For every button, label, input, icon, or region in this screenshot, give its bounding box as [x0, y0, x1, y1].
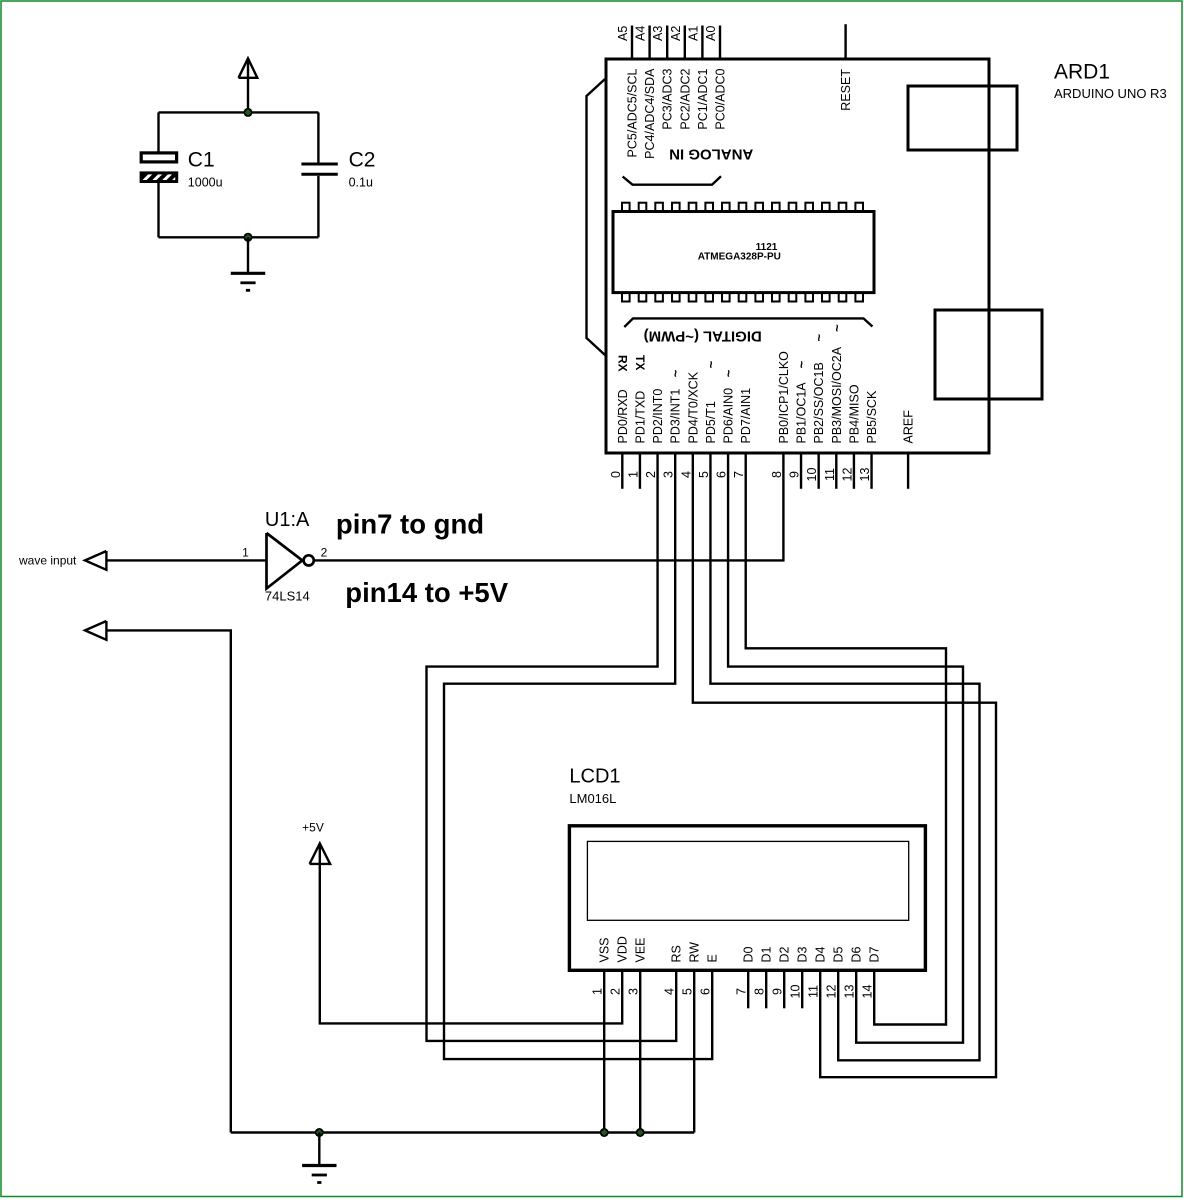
output arrow — [85, 621, 106, 640]
svg-text:2: 2 — [321, 546, 328, 560]
pin A2 stub — [684, 26, 686, 60]
svg-text:C1: C1 — [188, 149, 215, 172]
arduino ARD1 body — [606, 59, 989, 453]
svg-text:4: 4 — [679, 471, 693, 478]
svg-text:PC3/ADC3: PC3/ADC3 — [661, 68, 675, 129]
svg-text:PB5/SCK: PB5/SCK — [865, 390, 879, 443]
svg-text:D3: D3 — [796, 946, 810, 962]
lcd pin D3 stub — [801, 970, 803, 1008]
node junction — [244, 233, 253, 242]
ground — [318, 1133, 320, 1165]
power jack — [935, 310, 1042, 399]
wire — [159, 111, 319, 113]
svg-text:PD3/INT1: PD3/INT1 — [669, 389, 683, 444]
pin A4 stub — [648, 26, 650, 60]
svg-text:RESET: RESET — [839, 69, 853, 111]
wire LCD VEE to ground — [639, 970, 641, 1132]
svg-text:A0: A0 — [704, 26, 718, 41]
svg-text:PB2/SS/OC1B: PB2/SS/OC1B — [812, 362, 826, 443]
lcd display window — [587, 841, 908, 920]
wire +5V to LCD VDD — [320, 864, 622, 1024]
svg-text:VDD: VDD — [616, 936, 630, 962]
ground rail wire — [231, 1131, 694, 1133]
wire — [159, 236, 319, 238]
svg-text:14: 14 — [861, 985, 875, 999]
svg-text:pin14 to +5V: pin14 to +5V — [345, 577, 508, 608]
pin 12 stub — [853, 453, 855, 489]
wire inverter output to pin 8 — [314, 453, 783, 560]
ground — [247, 237, 249, 272]
svg-text:1: 1 — [591, 988, 605, 995]
wire arrow to ground rail — [106, 630, 230, 1132]
svg-text:D2: D2 — [778, 946, 792, 962]
pin A3 stub — [666, 26, 668, 60]
pin A1 stub — [701, 26, 703, 60]
svg-text:wave input: wave input — [18, 554, 77, 568]
pin AREF stub — [907, 453, 909, 489]
wire pin6 to LCD D6 — [728, 453, 963, 1043]
svg-text:PC1/ADC1: PC1/ADC1 — [696, 68, 710, 129]
svg-text:PB4/MISO: PB4/MISO — [847, 384, 861, 443]
svg-text:PC5/ADC5/SCL: PC5/ADC5/SCL — [626, 68, 640, 157]
svg-text:2: 2 — [644, 471, 658, 478]
node junction — [636, 1128, 645, 1137]
svg-text:6: 6 — [699, 988, 713, 995]
capacitor C1 — [141, 112, 177, 237]
pin RESET stub — [844, 24, 846, 59]
wire LCD VSS to ground — [603, 970, 605, 1132]
svg-text:D0: D0 — [742, 946, 756, 962]
pin A5 stub — [631, 26, 633, 60]
inverter bubble — [304, 555, 314, 565]
svg-text:12: 12 — [825, 985, 839, 999]
svg-text:6: 6 — [715, 471, 729, 478]
svg-text:A2: A2 — [669, 26, 683, 41]
svg-text:D1: D1 — [760, 946, 774, 962]
svg-text:~: ~ — [703, 361, 718, 369]
lcd pin D0 stub — [747, 970, 749, 1008]
svg-text:13: 13 — [843, 985, 857, 999]
capacitor C2 — [301, 112, 337, 237]
pin 10 stub — [817, 453, 819, 489]
node junction — [244, 108, 253, 117]
wire LCD RW to ground — [693, 970, 695, 1132]
wire pin4 to LCD D4 — [693, 453, 996, 1077]
power arrow VCC — [239, 58, 258, 112]
svg-text:PD5/T1: PD5/T1 — [704, 401, 718, 443]
analog group bracket — [623, 176, 721, 184]
input arrow wave input — [85, 551, 106, 570]
svg-text:~: ~ — [829, 324, 844, 332]
svg-text:5: 5 — [681, 988, 695, 995]
svg-text:PD6/AIN0: PD6/AIN0 — [722, 388, 736, 444]
svg-text:ATMEGA328P-PU: ATMEGA328P-PU — [698, 251, 781, 262]
pin 1 stub — [639, 453, 641, 489]
svg-text:RX: RX — [616, 355, 630, 372]
svg-text:PC0/ADC0: PC0/ADC0 — [714, 68, 728, 129]
inverter U1:A triangle — [267, 533, 303, 589]
pin 9 stub — [800, 453, 802, 489]
wire pin7 to LCD D7 — [746, 453, 946, 1025]
svg-text:9: 9 — [771, 988, 785, 995]
svg-text:A1: A1 — [686, 26, 700, 41]
svg-text:D7: D7 — [868, 946, 882, 962]
svg-text:ARD1: ARD1 — [1054, 61, 1110, 84]
pin A0 stub — [719, 26, 721, 60]
svg-text:U1:A: U1:A — [265, 509, 310, 531]
svg-text:8: 8 — [753, 988, 767, 995]
svg-text:3: 3 — [662, 471, 676, 478]
svg-text:10: 10 — [789, 985, 803, 999]
svg-text:+5V: +5V — [302, 821, 324, 835]
wire pin5 to LCD D5 — [710, 453, 979, 1060]
svg-text:0.1u: 0.1u — [349, 175, 373, 189]
svg-text:ARDUINO UNO R3: ARDUINO UNO R3 — [1054, 86, 1167, 101]
svg-text:A3: A3 — [651, 26, 665, 41]
svg-text:PD2/INT0: PD2/INT0 — [651, 389, 665, 444]
wire pin3 to LCD E — [444, 453, 712, 1059]
svg-text:A4: A4 — [634, 26, 648, 41]
power arrow +5V — [310, 843, 331, 864]
svg-text:PC2/ADC2: PC2/ADC2 — [678, 68, 692, 129]
svg-text:4: 4 — [663, 988, 677, 995]
svg-text:E: E — [706, 954, 720, 962]
svg-text:A5: A5 — [616, 26, 630, 41]
svg-text:3: 3 — [627, 988, 641, 995]
svg-text:~: ~ — [812, 334, 827, 342]
svg-text:VEE: VEE — [634, 937, 648, 962]
svg-text:~: ~ — [721, 370, 736, 378]
node junction — [600, 1128, 609, 1137]
svg-text:PD4/T0/XCK: PD4/T0/XCK — [686, 371, 700, 443]
svg-text:PD0/RXD: PD0/RXD — [616, 389, 630, 443]
svg-text:D6: D6 — [850, 946, 864, 962]
svg-text:RS: RS — [670, 945, 684, 962]
svg-text:7: 7 — [732, 471, 746, 478]
usb connector — [908, 86, 1017, 150]
svg-text:1: 1 — [242, 546, 249, 560]
svg-text:9: 9 — [788, 471, 802, 478]
svg-text:D4: D4 — [814, 946, 828, 962]
svg-text:ANALOG IN: ANALOG IN — [669, 146, 753, 163]
svg-text:D5: D5 — [832, 946, 846, 962]
svg-text:0: 0 — [609, 471, 623, 478]
svg-text:pin7 to gnd: pin7 to gnd — [336, 509, 484, 540]
svg-text:10: 10 — [805, 468, 819, 482]
svg-text:DIGITAL (~PWM): DIGITAL (~PWM) — [644, 328, 762, 345]
pin 13 stub — [870, 453, 872, 489]
node junction — [315, 1128, 324, 1137]
svg-text:PC4/ADC4/SDA: PC4/ADC4/SDA — [643, 68, 657, 159]
svg-text:74LS14: 74LS14 — [265, 589, 310, 604]
svg-text:1: 1 — [626, 471, 640, 478]
svg-text:PB0/ICP1/CLKO: PB0/ICP1/CLKO — [777, 351, 791, 444]
svg-text:RW: RW — [688, 942, 702, 963]
pin 0 stub — [621, 453, 623, 489]
lcd LCD1 body — [569, 826, 925, 971]
svg-text:LM016L: LM016L — [569, 791, 616, 806]
svg-text:11: 11 — [807, 985, 821, 998]
svg-text:LCD1: LCD1 — [569, 766, 620, 788]
svg-text:5: 5 — [697, 471, 711, 478]
svg-text:11: 11 — [823, 468, 837, 481]
svg-text:12: 12 — [840, 468, 854, 482]
ic ATMEGA328P-PU — [613, 203, 874, 302]
svg-text:VSS: VSS — [598, 937, 612, 962]
svg-text:PD7/AIN1: PD7/AIN1 — [739, 388, 753, 444]
svg-text:~: ~ — [668, 370, 683, 378]
arduino left notch — [587, 79, 606, 355]
svg-text:7: 7 — [735, 988, 749, 995]
pin 11 stub — [835, 453, 837, 489]
wire — [106, 559, 266, 561]
svg-text:PB3/MOSI/OC2A: PB3/MOSI/OC2A — [830, 346, 844, 443]
svg-text:~: ~ — [794, 361, 809, 369]
digital group bracket — [624, 318, 872, 327]
svg-text:2: 2 — [609, 988, 623, 995]
lcd pin D1 stub — [765, 970, 767, 1008]
wire pin2 to LCD RS — [427, 453, 677, 1041]
lcd pin D2 stub — [783, 970, 785, 1008]
svg-text:PB1/OC1A: PB1/OC1A — [795, 382, 809, 444]
svg-text:TX: TX — [633, 355, 647, 370]
svg-text:C2: C2 — [349, 149, 376, 172]
svg-text:PD1/TXD: PD1/TXD — [633, 391, 647, 444]
svg-text:13: 13 — [858, 468, 872, 482]
svg-text:1000u: 1000u — [188, 175, 223, 189]
svg-text:AREF: AREF — [902, 410, 916, 444]
svg-text:8: 8 — [770, 471, 784, 478]
